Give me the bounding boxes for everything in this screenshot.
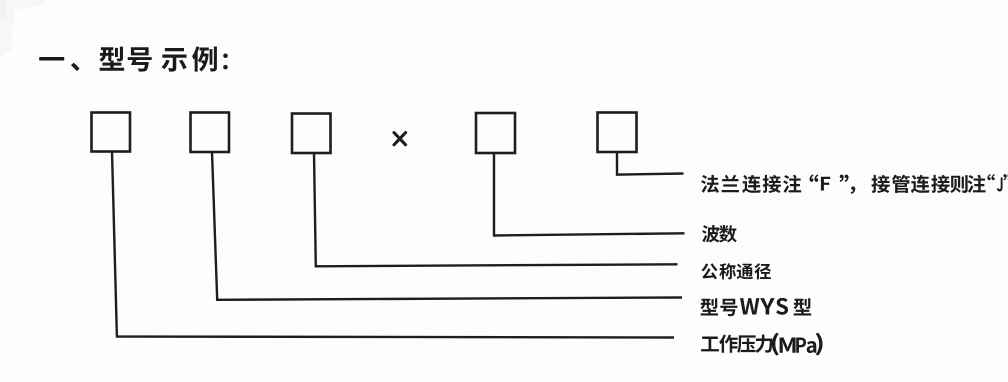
scan smudge top-left <box>0 0 46 58</box>
wire from box 5 to connection-type label <box>617 152 684 175</box>
box 4 (wave count) <box>476 113 515 153</box>
label: 工作压力(MPa) <box>701 333 822 356</box>
multiplication sign x <box>394 133 406 145</box>
box 5 (connection type) <box>598 113 637 153</box>
label: 公称通径 <box>701 263 771 279</box>
box 1 (working pressure digit) <box>92 113 131 152</box>
label: 法兰连接注“F”，接管连接则注“J” <box>701 174 1008 194</box>
label: 型号 WYS 型 <box>700 298 811 316</box>
wire from box 4 to wave-count label <box>494 153 685 236</box>
box 3 (nominal diameter) <box>292 114 331 154</box>
box 2 (model code) <box>191 113 230 153</box>
wire from box 2 to model label <box>212 152 682 300</box>
wire from box 3 to nominal-diameter label <box>314 153 678 266</box>
label: 波数 <box>702 225 737 242</box>
wire from box 1 to working-pressure label <box>112 152 674 338</box>
title text 一、型号示例： <box>39 46 228 71</box>
